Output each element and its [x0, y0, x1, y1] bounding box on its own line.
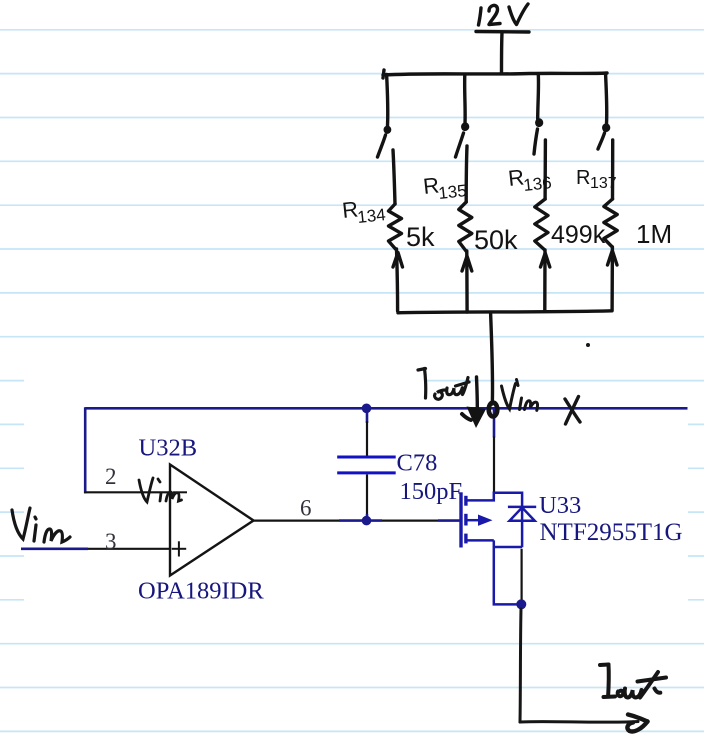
branch 4 vertical: [606, 75, 607, 125]
12V underline: [476, 30, 529, 34]
svg-text:U33: U33: [539, 492, 581, 519]
hand output wire down + right with arrow: [520, 609, 648, 731]
power stem: [500, 33, 504, 73]
12V label strokes: [479, 8, 482, 25]
gate bar: [459, 492, 462, 547]
switch 3 pivot: [536, 119, 542, 125]
switch 4 pivot: [603, 124, 609, 130]
source stub bottom: [468, 539, 494, 542]
capacitor C78 leads: [366, 408, 369, 423]
bottom joining bar: [494, 546, 522, 549]
current arrow R136: [541, 253, 550, 267]
current arrow R134: [393, 253, 403, 268]
handwritten resistor labels: [341, 164, 672, 255]
svg-text:OPA189IDR: OPA189IDR: [138, 578, 264, 605]
junction dot output node: [516, 599, 526, 609]
wire VIN top rail: [85, 407, 687, 410]
wire Vin input net: [21, 547, 88, 550]
handwritten Iout (bottom): [600, 665, 666, 698]
body diode bar: [508, 506, 536, 509]
switch 2 blade: [456, 133, 464, 157]
svg-text:C78: C78: [397, 450, 438, 477]
white patch of pasted CAD screenshot (right part): [425, 392, 688, 612]
svg-text:50k: 50k: [474, 225, 518, 255]
current arrow R137: [608, 251, 618, 266]
svg-text:1M: 1M: [636, 219, 672, 249]
svg-text:499k: 499k: [551, 221, 606, 249]
branch 3 vertical: [536, 75, 540, 120]
wire feedback vertical: [84, 407, 87, 493]
channel segments: [464, 496, 467, 506]
current arrow R135: [462, 256, 472, 271]
node blob at wire junction: [489, 403, 498, 417]
wire to gate (black segment): [382, 519, 438, 521]
branch 2 vertical: [463, 75, 467, 124]
wire op-amp pin 3 stub: [88, 548, 170, 550]
capacitor C78 bottom lead: [366, 475, 368, 515]
resistor R136 body: [543, 140, 547, 199]
capacitor C78 plates: [337, 457, 396, 473]
handwritten Vin (at node): [502, 380, 538, 411]
top rail: [383, 70, 607, 78]
wire drain from top rail: [493, 408, 496, 437]
switch 4 blade: [598, 133, 605, 149]
svg-text:3: 3: [105, 529, 117, 554]
wire output net (navy segment at junction): [339, 519, 382, 522]
svg-text:137: 137: [590, 175, 617, 192]
svg-text:150pF: 150pF: [400, 478, 463, 505]
svg-text:135: 135: [437, 181, 467, 203]
left lead down: [494, 540, 521, 604]
resistor R135 body: [465, 146, 469, 202]
handwritten Iout (top): [418, 369, 469, 400]
switch 1 blade: [378, 135, 386, 157]
wire op-amp pin 2 stub: [84, 491, 170, 493]
stem to CAD node: [491, 313, 493, 404]
branch 1 vertical: [387, 75, 388, 127]
stray dot: [586, 343, 590, 347]
svg-text:NTF2955T1G: NTF2955T1G: [540, 519, 683, 546]
transistor U33 (P-MOSFET) symbol: [461, 492, 536, 604]
bottom rail: [398, 311, 612, 313]
switch 1 pivot: [385, 127, 390, 133]
body diode triangle: [510, 508, 535, 521]
svg-text:2: 2: [105, 464, 117, 489]
bulk stub + arrow: [468, 519, 480, 522]
handwritten Vin (big, left): [12, 508, 70, 542]
op-amp plus marker: [172, 541, 187, 556]
op-amp minus marker: [173, 491, 187, 493]
hand current arrow shaft (Iout down): [475, 377, 479, 410]
op-amp U32B triangle: [170, 465, 254, 576]
switch 3 blade: [534, 129, 538, 154]
handwritten x mark: [565, 397, 580, 425]
junction dot output: [362, 516, 372, 526]
hand arrowhead (Iout down): [467, 407, 487, 429]
wire source pin down: [520, 549, 522, 602]
junction dot top: [362, 404, 372, 414]
wire gate pin (navy segment): [438, 519, 460, 522]
switch 2 pivot: [462, 123, 468, 129]
drain stub top: [468, 493, 523, 547]
svg-text:5k: 5k: [406, 222, 435, 252]
svg-text:136: 136: [522, 173, 552, 195]
svg-text:134: 134: [356, 205, 386, 227]
white patch of pasted CAD screenshot (left part): [24, 344, 425, 612]
wire op-amp output pin 6: [254, 519, 340, 521]
resistor R137 body: [611, 140, 615, 199]
svg-text:U32B: U32B: [139, 435, 198, 462]
svg-text:6: 6: [300, 496, 312, 521]
resistor R134 body: [393, 150, 395, 204]
handwritten Vin (at pin 2): [139, 478, 182, 502]
svg-text:R: R: [576, 167, 590, 189]
